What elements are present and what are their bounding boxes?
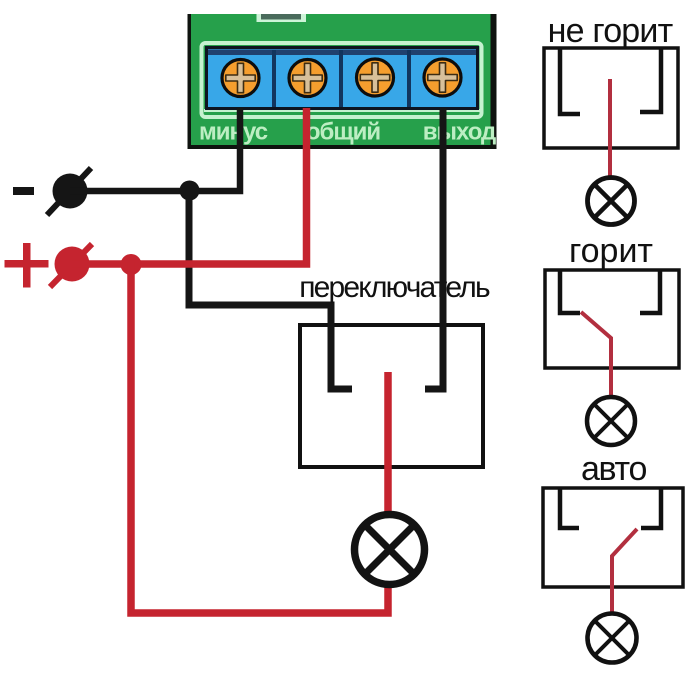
wire plus to terminal 2	[72, 108, 307, 264]
switch S1 left contact redraw	[331, 305, 352, 389]
wire выход terminal to switch right contact	[425, 108, 443, 389]
contact left box3	[560, 488, 579, 528]
wire plus junction to lamp bottom	[131, 262, 388, 613]
contact left box2	[560, 270, 580, 313]
pole wire box3	[612, 529, 637, 615]
lamp L1	[355, 515, 425, 585]
minus sign	[13, 187, 34, 195]
lamp box2	[587, 397, 635, 445]
wire minus to terminal 1	[70, 108, 240, 191]
board inner frame	[202, 43, 482, 117]
screw terminal 4	[424, 59, 461, 96]
switch state box не горит	[544, 48, 678, 148]
relay module board U1	[188, 14, 497, 149]
pole wire box2	[581, 312, 611, 398]
lamp box3	[588, 614, 637, 663]
pole wire box1	[608, 79, 612, 180]
svg-text:переключатель: переключатель	[299, 271, 490, 304]
junction node minus	[180, 181, 200, 201]
svg-text:общий: общий	[306, 119, 380, 146]
svg-text:горит: горит	[569, 232, 653, 270]
lamp box1	[588, 178, 635, 225]
svg-text:не горит: не горит	[548, 12, 673, 50]
battery clamp plus	[50, 244, 92, 287]
svg-text:минус: минус	[199, 119, 268, 146]
switch state box авто	[543, 488, 683, 587]
switch S1 pole wire to lamp	[384, 372, 392, 516]
wire minus junction to switch left contact	[189, 189, 352, 389]
contact right box2	[640, 270, 660, 313]
svg-text:выход: выход	[423, 119, 496, 146]
battery clamp minus	[47, 168, 91, 215]
contact right box1	[640, 48, 661, 112]
screw terminal 3	[357, 59, 394, 96]
contact left box1	[560, 48, 580, 114]
contact right box3	[641, 488, 661, 528]
switch S1 box	[300, 325, 483, 467]
plus sign	[5, 243, 49, 288]
switch state box горит	[545, 270, 679, 368]
screw terminal 2	[289, 60, 326, 97]
screw terminal 1	[222, 60, 259, 97]
board notch	[257, 14, 307, 22]
junction node plus	[121, 254, 142, 275]
svg-text:авто: авто	[581, 450, 647, 488]
terminal block TB1	[207, 48, 478, 109]
